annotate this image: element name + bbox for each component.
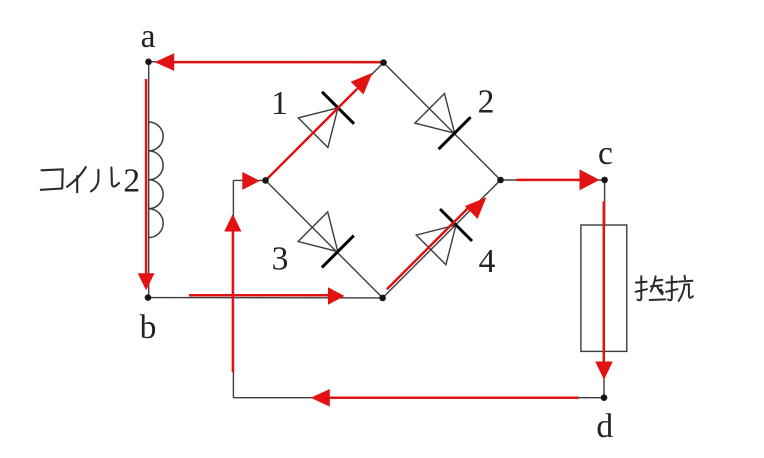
- node R (bridge right): [497, 177, 504, 184]
- current arrow up return vertical: [224, 214, 241, 232]
- node a: [145, 59, 152, 66]
- svg-text:a: a: [141, 18, 156, 55]
- current arrow into c (pointing right): [580, 169, 600, 190]
- svg-text:d: d: [596, 408, 613, 445]
- node b: [145, 294, 152, 301]
- wire L to return corner (short horizontal): [233, 179, 265, 181]
- current arrow into d (pointing down): [595, 362, 613, 380]
- wire L to B (bridge branch, diode 3): [266, 180, 383, 298]
- svg-text:2: 2: [478, 84, 495, 121]
- svg-text:3: 3: [272, 241, 289, 278]
- current arrow into b (pointing down): [138, 273, 155, 290]
- glyph コ: [41, 169, 63, 190]
- current arrow through diode 1 (pointing up-right): [351, 73, 373, 95]
- label コイル2 (coil label, hand-drawn glyphs + digit 2): [41, 167, 119, 192]
- label 抵抗 (resistor label, hand-drawn glyphs): [636, 276, 693, 301]
- diode D3 (L to B branch): [298, 212, 354, 268]
- current arrow toward B (pointing right): [328, 287, 345, 305]
- current path red line R to c: [517, 179, 583, 182]
- wire B to R (bridge branch, diode 4): [383, 180, 501, 298]
- current path red line through resistor (c to d): [603, 201, 606, 363]
- svg-text:2: 2: [123, 162, 140, 199]
- current arrow into L (pointing right): [242, 172, 259, 190]
- svg-text:b: b: [140, 309, 157, 346]
- wire bottom return horizontal (corner to d): [233, 397, 604, 399]
- coil コイル2 (inductor, 4 arcs): [149, 122, 163, 238]
- current path red line return vertical: [232, 231, 235, 373]
- svg-text:c: c: [598, 135, 613, 172]
- svg-text:1: 1: [271, 85, 288, 122]
- current path red line diode 4 branch (B to R): [387, 204, 472, 289]
- current path red line b to B: [189, 294, 329, 297]
- wire resistor bottom to d: [603, 351, 605, 397]
- wire R to c: [501, 179, 605, 181]
- wire a to T (top horizontal): [149, 61, 384, 64]
- node L (bridge left): [262, 177, 269, 184]
- node B (bridge bottom): [379, 295, 386, 302]
- wire T to R (bridge branch, diode 2): [384, 63, 501, 180]
- current path red line diode 1 branch (L to T): [268, 89, 358, 179]
- glyph 抗: [666, 276, 693, 301]
- glyph イ: [67, 167, 86, 192]
- wire c to resistor top: [604, 180, 606, 225]
- resistor 抵抗 (box): [581, 225, 627, 351]
- current path red line coil (a to b): [145, 79, 148, 275]
- current path red line top (T to a): [172, 61, 384, 64]
- node c: [601, 177, 608, 184]
- wire L to T (bridge branch, diode 1): [266, 63, 384, 181]
- svg-text:4: 4: [479, 243, 496, 280]
- current path red line bottom (d to corner): [329, 397, 579, 400]
- diode D4 (B to R branch): [416, 209, 472, 265]
- diode D2 (T to R branch): [415, 94, 471, 150]
- diode D1 (L to T branch): [298, 92, 354, 148]
- current arrow into a (pointing left): [155, 53, 175, 71]
- node d: [601, 394, 608, 401]
- wire return vertical (L down to bottom wire): [232, 180, 234, 397]
- wire b to B (bottom-left horizontal): [148, 297, 383, 299]
- glyph 抵: [636, 276, 666, 300]
- node T (bridge top): [380, 59, 387, 66]
- wire a to b (left vertical, coil lead): [148, 62, 150, 298]
- current arrow through diode 4 (pointing up-right): [465, 197, 487, 219]
- glyph ル: [91, 168, 119, 192]
- current arrow on bottom wire (pointing left): [311, 389, 330, 407]
